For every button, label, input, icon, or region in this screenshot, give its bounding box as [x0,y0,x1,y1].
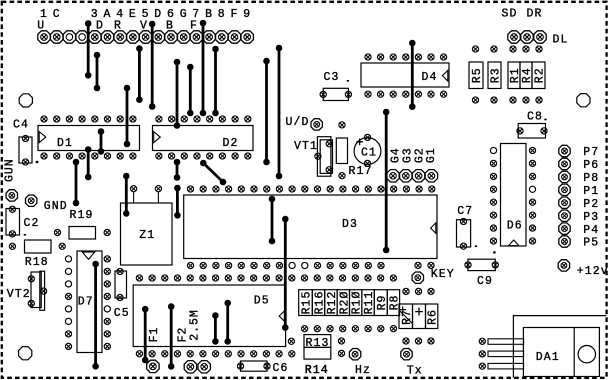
wire 10 [276,45,283,180]
svg-text:VT2: VT2 [7,288,31,301]
svg-text:D7: D7 [78,295,94,308]
svg-text:C7: C7 [457,205,473,218]
wire 18 [123,173,130,217]
svg-text:G4: G4 [389,147,402,163]
svg-text:C: C [53,8,61,21]
IC D4 [361,63,449,87]
svg-text:R15: R15 [301,291,314,315]
IC DA1 voltage regulator [523,328,599,377]
C4 pads [22,135,28,165]
svg-text:D2: D2 [223,137,239,150]
svg-text:D5: D5 [254,294,270,307]
DA1 pin 3 [488,363,524,369]
GUN pad [6,190,17,201]
svg-text:A: A [103,8,111,21]
svg-text:D: D [96,20,104,33]
Hz pad [349,349,360,360]
+12v pad [558,260,569,271]
svg-text:Tx: Tx [407,364,423,377]
C1 pads [364,134,370,166]
IC D2 [153,126,254,151]
svg-text:DR: DR [527,8,543,21]
G1-G4 labels [389,147,438,163]
C6 pads [237,363,270,369]
svg-text:P4: P4 [583,224,599,237]
connector pin labels row 1 [40,8,251,21]
svg-text:P7: P7 [583,146,599,159]
svg-text:VT1: VT1 [294,140,318,153]
svg-text:P6: P6 [583,159,599,172]
wire 14 [73,159,80,207]
D4 pads bottom row [365,91,447,97]
svg-text:R14: R14 [305,364,329,377]
C5 pads [117,268,123,300]
Z1 pads [131,186,162,192]
svg-text:C9: C9 [477,275,493,288]
resistor R14 [304,347,331,376]
capacitor C4 [13,118,32,163]
wire 15 [174,159,181,181]
connector pin labels row 2 [37,20,198,33]
VT1 pads [315,141,333,173]
svg-text:C6: C6 [273,362,289,375]
pin1 dot D1 [36,161,39,163]
IC D5 [133,285,285,347]
R7/R6 bottom pads [403,338,434,344]
resistor R15 [299,290,314,316]
resistor R1Ø [350,290,364,316]
resistor R18 [25,240,52,269]
resistor R6 [426,304,440,329]
resistor R9 [374,290,389,316]
wire 19 [409,40,416,110]
svg-text:P2: P2 [583,198,599,211]
wire 22 [282,216,289,331]
wire 9 [263,58,270,166]
P1-P8 labels [583,146,599,250]
D7 pads right column [104,256,110,350]
svg-text:KEY: KEY [431,268,455,281]
bottom connector pads [147,360,211,373]
DA1 zone frame [513,316,606,378]
D1 pads bottom row [41,153,136,159]
svg-text:R18: R18 [25,256,49,269]
wire 7 [200,20,207,117]
D3 pads bottom row [187,262,384,268]
svg-text:+12v: +12v [577,265,609,278]
resistor R3 [488,62,503,89]
capacitor C6 [241,361,289,375]
resistor R13 [304,335,331,350]
R18 pads [9,243,65,249]
svg-text:C3: C3 [324,71,340,84]
svg-text:GND: GND [44,200,68,213]
capacitor C8 [518,110,547,138]
resistor R5 [469,62,484,89]
svg-text:B: B [205,8,213,21]
wire 20 [383,109,390,254]
resistor R17 [336,138,347,164]
resistor R2Ø [337,290,351,316]
wire 5 [174,59,181,129]
wire 8 [212,46,219,117]
wire 2 [94,52,101,92]
wire 25 [168,303,175,369]
C9 pads [465,262,499,268]
wire 21 [269,196,276,245]
D2 pads bottom row [156,153,251,159]
wire 4 [149,21,156,110]
resistor bank bottom pads [302,326,397,332]
capacitor C2 [6,209,40,236]
mounting hole bottom-left [19,347,32,360]
svg-text:8: 8 [218,8,226,21]
U/D aux pads [339,122,345,179]
svg-text:Hz: Hz [355,364,371,377]
svg-text:Z1: Z1 [139,229,155,242]
U/D pad [311,119,322,130]
DA1 pin 2 [488,351,524,357]
C2 pads [9,206,15,237]
svg-text:R17: R17 [349,165,373,178]
svg-text:F1: F1 [148,327,161,343]
svg-text:G1: G1 [425,147,438,163]
R19 pads [54,229,110,235]
wire 11 [124,85,131,148]
D6 pads left column [490,147,496,244]
wire 26 [212,312,219,345]
svg-text:R2: R2 [534,67,547,83]
capacitor C7 [457,205,478,247]
wire 16 (diagonal) [200,160,226,186]
D5 pads bottom row [136,351,295,357]
svg-text:C1: C1 [361,147,377,160]
resistor R12 [325,290,339,316]
svg-text:R: R [114,20,122,33]
wire 1 [85,20,92,78]
svg-text:E: E [129,8,137,21]
svg-text:R3: R3 [490,67,503,83]
resistor R11 [362,290,376,316]
svg-text:R19: R19 [70,209,94,222]
svg-text:C2: C2 [24,217,40,230]
svg-text:D6: D6 [507,219,523,232]
C8 pads [517,128,547,134]
svg-text:P8: P8 [583,172,599,185]
svg-text:P5: P5 [583,237,599,250]
D4 pads top row [365,54,447,60]
svg-text:9: 9 [243,8,251,21]
resistor R4 [520,62,534,89]
svg-text:SD: SD [502,8,518,21]
wire 17 [174,185,181,219]
svg-text:D3: D3 [342,218,358,231]
D6 pads right column [529,147,535,244]
svg-text:D: D [154,8,162,21]
resistor R16 [312,290,326,316]
pin1 dot D6 [493,251,495,253]
svg-text:GUN: GUN [3,158,16,182]
wire 23 [92,261,99,370]
G1-G4 pads [387,170,438,182]
svg-text:G: G [180,8,188,21]
transistor VT2 [7,271,45,310]
svg-text:DL: DL [553,34,569,47]
capacitor C1 (electrolytic) [354,138,381,165]
D5/resistor pads top row [136,275,396,281]
R7/R6 top pads [403,288,434,294]
C3 pads [320,91,351,97]
svg-text:2.5M: 2.5M [189,309,202,341]
svg-text:P3: P3 [583,211,599,224]
IC D6 [501,144,527,247]
svg-text:V: V [140,20,148,33]
svg-text:R5: R5 [471,67,484,83]
D7 pads left column [65,256,71,350]
svg-text:F: F [190,20,198,33]
VT2 pads [28,276,47,307]
wire 6 [187,64,194,117]
R5-R2 bottom pads [472,97,542,103]
wire 24 [142,306,149,363]
pad near D5 corner [288,338,294,344]
wire 12 [98,128,105,155]
svg-text:C5: C5 [114,307,130,320]
resistor R8 [387,290,401,316]
svg-text:C8: C8 [527,110,543,123]
wire 13 [85,146,92,180]
transistor VT1 [294,137,333,177]
capacitor C3 [323,71,349,101]
quartz Z1 [121,192,173,266]
D1 pads top row [41,116,136,122]
connector X1 pads (top row) [38,31,254,43]
svg-text:U: U [37,20,45,33]
resistor R1 [508,62,522,89]
D2 pads top row [156,116,251,122]
GND pad [26,195,37,206]
svg-text:DA1: DA1 [536,351,560,364]
KEY aux pads [415,262,434,268]
svg-text:C4: C4 [13,118,29,131]
C7 pads [460,218,466,249]
R13/R14 pads [338,338,344,357]
capacitor C5 [114,271,130,320]
svg-text:B: B [166,20,174,33]
DA1 pin pads [479,338,485,369]
mounting hole top-left [19,94,32,107]
svg-text:R6: R6 [427,309,440,325]
wire 3 [136,45,143,103]
R5-R2 top pads [472,46,542,52]
P1-P8 pads [559,145,570,247]
IC D1 [38,126,140,151]
D3 pads top row [187,186,435,192]
resistor R2 [532,62,547,89]
IC D3 [184,195,437,259]
capacitor C9 [468,259,495,288]
svg-text:U/D: U/D [286,116,310,129]
resistor R19 [69,209,96,239]
resistor R7 (with polarity mark) [399,304,414,329]
svg-text:D1: D1 [57,137,73,150]
svg-text:F: F [230,8,238,21]
KEY pad [412,272,423,283]
svg-text:D4: D4 [422,71,438,84]
svg-text:P1: P1 [583,185,599,198]
wire 27 [224,300,231,345]
Tx pad [401,349,412,360]
capacitor cell with plus mark [413,304,426,329]
DA1 pin 1 [488,339,524,345]
DL pads [508,31,546,43]
mounting hole top-right [577,94,590,107]
IC D7 [77,251,102,353]
